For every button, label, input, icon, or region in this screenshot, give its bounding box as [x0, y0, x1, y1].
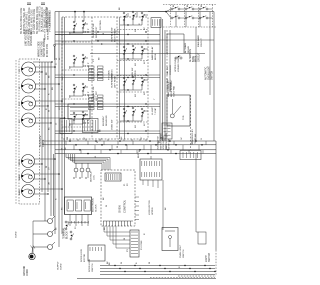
svg-text:SURFACE SW: SURFACE SW	[111, 27, 114, 42]
svg-text:BROIL ELEMENT: BROIL ELEMENT	[171, 79, 173, 97]
svg-text:RIGHT REAR: RIGHT REAR	[114, 28, 117, 42]
svg-text:W: W	[117, 146, 119, 148]
svg-text:AUTOMATIC: AUTOMATIC	[205, 66, 208, 80]
svg-text:NO: NO	[135, 63, 137, 66]
svg-text:NO: NO	[135, 94, 137, 97]
svg-text:NOTE 3: NOTE 3	[45, 31, 47, 40]
svg-text:SWITCH: SWITCH	[209, 253, 211, 262]
svg-text:OVEN SW: OVEN SW	[112, 119, 114, 130]
svg-text:HARNESS: HARNESS	[111, 69, 114, 80]
svg-text:W: W	[149, 262, 151, 264]
svg-text:POWERED BY: POWERED BY	[192, 129, 194, 144]
svg-text:CIRCUIT: CIRCUIT	[198, 52, 200, 62]
svg-text:CIRCUIT: CIRCUIT	[201, 37, 203, 47]
svg-text:SURFACE SW: SURFACE SW	[92, 86, 95, 101]
svg-text:SWITCH: SWITCH	[183, 249, 185, 258]
svg-text:RELAY: RELAY	[187, 45, 190, 53]
svg-text:DLB RELAY: DLB RELAY	[90, 170, 93, 182]
svg-text:LOW VOLTAGE: LOW VOLTAGE	[27, 29, 30, 46]
svg-text:BAKE: BAKE	[18, 189, 21, 195]
svg-text:TOD: TOD	[183, 115, 185, 120]
svg-text:W: W	[46, 166, 48, 168]
svg-text:LATCH SW: LATCH SW	[168, 138, 171, 150]
svg-text:UPPER OVEN: UPPER OVEN	[175, 57, 177, 72]
svg-text:R R: R R	[19, 102, 21, 106]
svg-text:OR: OR	[62, 76, 64, 80]
svg-text:RELAY BD: RELAY BD	[105, 115, 108, 126]
svg-text:LOCK MOTOR: LOCK MOTOR	[149, 200, 151, 215]
svg-text:SURFACE SW: SURFACE SW	[92, 23, 95, 38]
svg-text:LEFT REAR: LEFT REAR	[114, 76, 117, 88]
svg-text:NO: NO	[135, 125, 137, 128]
svg-text:W: W	[124, 238, 126, 240]
svg-text:UPPER: UPPER	[135, 70, 137, 78]
svg-text:ALT BAKE: ALT BAKE	[184, 42, 187, 53]
svg-text:UNITS: UNITS	[42, 139, 45, 147]
svg-text:OVEN: OVEN	[118, 205, 122, 213]
svg-text:SEE NOTE: SEE NOTE	[48, 28, 50, 40]
svg-text:HI-LIMIT: HI-LIMIT	[152, 106, 154, 115]
svg-text:CLOCK: CLOCK	[96, 204, 98, 212]
svg-text:W: W	[62, 148, 64, 150]
svg-text:IN OFF POS: IN OFF POS	[47, 44, 49, 57]
svg-text:W: W	[102, 43, 104, 45]
svg-text:W: W	[49, 110, 51, 112]
svg-text:ELECTRONIC: ELECTRONIC	[93, 197, 95, 212]
svg-text:FAN SW: FAN SW	[166, 66, 169, 75]
svg-text:UPPER: UPPER	[152, 207, 154, 215]
svg-text:BROIL: BROIL	[19, 158, 21, 165]
svg-text:CORD: CORD	[16, 231, 18, 238]
svg-text:W: W	[103, 33, 105, 35]
svg-text:OVEN SW: OVEN SW	[132, 67, 134, 78]
svg-text:NO: NO	[135, 29, 137, 32]
svg-text:CHASSIS GND: CHASSIS GND	[30, 30, 33, 46]
svg-text:CONTROL: CONTROL	[123, 199, 127, 213]
svg-text:CABINET GND: CABINET GND	[40, 41, 43, 57]
svg-text:ELEMENT: ELEMENT	[103, 115, 105, 126]
svg-text:LOWER OVEN: LOWER OVEN	[178, 57, 180, 72]
svg-text:W: W	[121, 262, 123, 264]
svg-text:DOOR LOCK: DOOR LOCK	[81, 248, 83, 262]
svg-text:GROUND: GROUND	[24, 265, 26, 276]
svg-text:P1 CONN: P1 CONN	[109, 70, 111, 80]
svg-text:INFINITE SW: INFINITE SW	[50, 11, 52, 26]
svg-text:L R: L R	[19, 119, 21, 123]
svg-text:RIGHT FRT: RIGHT FRT	[96, 26, 98, 38]
svg-text:BLOCK: BLOCK	[67, 231, 69, 239]
svg-text:T-STAT: T-STAT	[154, 107, 157, 115]
svg-text:LIGHT: LIGHT	[206, 255, 208, 262]
svg-text:BAKE ELEMENT: BAKE ELEMENT	[167, 80, 170, 97]
svg-text:OVEN LIGHT: OVEN LIGHT	[180, 244, 182, 258]
svg-text:SURFACE UNIT SW: SURFACE UNIT SW	[46, 6, 49, 28]
svg-text:BAKE RELAY: BAKE RELAY	[151, 46, 154, 60]
svg-text:DOOR LOCK: DOOR LOCK	[89, 258, 91, 272]
svg-text:CORD: CORD	[61, 263, 63, 270]
svg-text:P3 CONN: P3 CONN	[141, 240, 143, 250]
svg-text:BAKE: BAKE	[192, 55, 195, 62]
svg-text:W: W	[181, 138, 183, 140]
svg-text:BU: BU	[52, 87, 54, 90]
svg-text:P4 CONN: P4 CONN	[100, 20, 102, 30]
svg-text:MAIN BAKE: MAIN BAKE	[197, 35, 200, 47]
svg-text:CORD: CORD	[27, 269, 29, 276]
svg-text:SUPPLY: SUPPLY	[58, 261, 60, 270]
svg-text:CONV FAN: CONV FAN	[173, 85, 176, 97]
svg-text:WIRING CODE: WIRING CODE	[39, 41, 41, 57]
svg-text:W: W	[84, 138, 86, 140]
svg-text:SWITCH: SWITCH	[92, 263, 94, 272]
svg-text:BROIL: BROIL	[155, 53, 157, 60]
svg-text:SWITCH: SWITCH	[212, 71, 214, 80]
svg-text:BAKE: BAKE	[18, 174, 21, 180]
svg-text:LEFT FRT: LEFT FRT	[96, 90, 98, 101]
svg-text:MOTOR: MOTOR	[84, 253, 86, 262]
svg-text:W: W	[106, 205, 108, 207]
svg-text:COIL: COIL	[94, 174, 96, 180]
svg-text:LINE VOLTAGE: LINE VOLTAGE	[25, 29, 28, 46]
